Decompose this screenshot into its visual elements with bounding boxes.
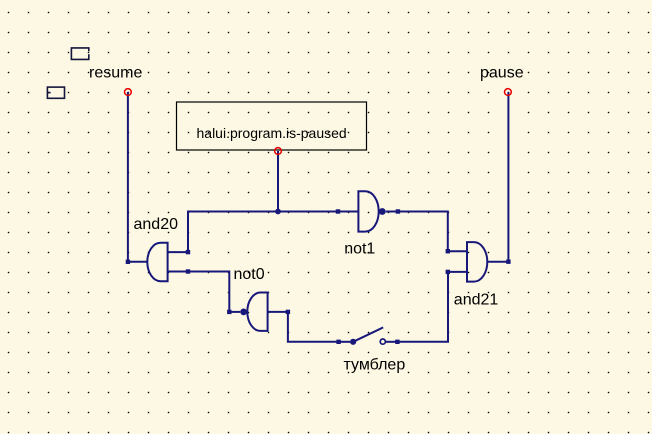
and-gate and21 (output right) [448,242,509,282]
wire and21 output up to pause [507,92,509,262]
svg-text:and20: and20 [134,216,179,233]
not0 output bubble [240,309,247,316]
junction node at is-paused wire [275,209,281,215]
port rectangle P1 (top-left) [71,48,88,60]
wire resume vertical [127,92,129,262]
not-gate not1 (output right with bubble) [338,191,398,231]
switch open contact circle [380,339,385,344]
not1 output bubble [379,208,386,215]
wire switch to and21 bottom input [397,272,448,342]
wire not0 input down to switch [288,312,339,342]
port rectangle P2 (top-left) [47,87,64,98]
terminal pause [505,89,512,96]
svg-text:тумблер: тумблер [344,356,406,373]
switch тумблер [339,327,398,341]
wire not1 output to and21 top input [398,212,448,252]
wire and20 top input to not1 input [188,212,338,253]
and20 pin squares [126,250,191,274]
svg-text:not1: not1 [344,241,375,258]
and-gate and20 (mirrored, output left) [128,243,188,282]
wire is-paused vertical [277,151,279,212]
and21 pin squares [446,249,511,274]
svg-text:halui.program.is-paused: halui.program.is-paused [197,125,347,141]
box halui.program.is-paused [177,102,367,150]
not0 pin squares [227,310,290,314]
not1 pin squares [336,209,400,213]
wire and20 bottom input to not0 output [188,272,229,312]
not-gate not0 (mirrored, output left with bubble) [229,293,288,331]
svg-text:not0: not0 [234,266,265,283]
switch closed contact dot [350,339,356,345]
svg-text:pause: pause [480,65,524,82]
svg-text:resume: resume [89,65,142,82]
switch pin squares [336,340,399,344]
terminal resume [125,89,132,96]
terminal is-paused [275,148,282,155]
svg-text:and21: and21 [454,292,499,309]
